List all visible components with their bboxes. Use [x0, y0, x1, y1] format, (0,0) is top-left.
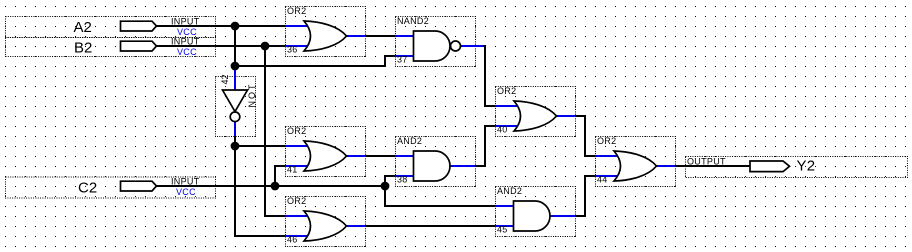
- OR2 gate U44 selection box: [596, 137, 676, 187]
- OR2 U40 output pin stub: [556, 115, 575, 117]
- label VCC on A2: [177, 27, 197, 37]
- label OR2 (40): [497, 86, 516, 96]
- label VCC on B2: [177, 47, 197, 57]
- svg-text:38: 38: [397, 175, 408, 185]
- input port C2 selection box: [6, 177, 216, 198]
- OR2 gate U36 selection box: [286, 7, 366, 57]
- wire from port A2 to node A: [152, 25, 287, 27]
- OR2 U40 body: [514, 101, 557, 131]
- designator 38: [397, 175, 408, 185]
- wire AND2-38 output to OR2-40 lower input: [474, 126, 495, 166]
- port name A2: [74, 19, 92, 36]
- svg-text:INPUT: INPUT: [171, 16, 200, 26]
- label INPUT on C2: [171, 176, 200, 186]
- label INPUT on B2: [171, 36, 200, 46]
- junction NOT output node: [231, 142, 240, 151]
- AND2 U45 input pin stubs: [495, 206, 515, 226]
- NAND2 U37 body: [414, 31, 451, 61]
- OR2 U44 output pin stub: [656, 165, 675, 167]
- svg-text:A2: A2: [74, 19, 92, 36]
- wire node C down to AND2-45 upper input: [385, 186, 495, 206]
- NOT U42 triangle body: [223, 90, 248, 112]
- wire AND2-45 output to OR2-44 lower input: [574, 176, 595, 216]
- label VCC on C2: [176, 187, 196, 197]
- AND2 U38 body: [414, 151, 451, 181]
- OR2 U36 body: [304, 21, 347, 51]
- OR2 U41 input pin stubs: [285, 146, 309, 166]
- junction node A to NAND2 branch: [231, 62, 240, 71]
- input port C2 pentagon symbol: [121, 181, 157, 191]
- svg-text:42: 42: [220, 74, 230, 84]
- wire NAND2 output to OR2-40 upper input: [482, 46, 495, 106]
- label AND2 (45): [497, 186, 522, 196]
- svg-text:INPUT: INPUT: [171, 36, 200, 46]
- svg-text:44: 44: [597, 175, 608, 185]
- svg-text:41: 41: [287, 165, 298, 175]
- svg-text:OR2: OR2: [597, 136, 616, 146]
- svg-text:AND2: AND2: [497, 186, 522, 196]
- OR2 U41 body: [304, 141, 347, 171]
- port name C2: [78, 180, 97, 197]
- AND2 U45 body: [514, 201, 551, 231]
- svg-text:46: 46: [287, 235, 298, 245]
- svg-text:NOT: NOT: [247, 83, 257, 108]
- svg-text:40: 40: [497, 125, 508, 135]
- wire node A to NAND2 lower input: [235, 56, 395, 66]
- NOT U42 inversion bubble: [230, 112, 240, 122]
- input port B2 selection box: [6, 38, 216, 57]
- OR2 U40 input pin stubs: [495, 106, 519, 126]
- wire from port B2 to node B: [152, 45, 287, 47]
- output port Y2 selection box: [686, 157, 908, 178]
- wire OR2-46 output to AND2-45 lower input: [364, 225, 495, 227]
- output port Y2 pentagon symbol: [750, 161, 790, 172]
- junction node C to OR2-41 branch: [271, 182, 280, 191]
- NAND2 U37 inversion bubble: [451, 41, 461, 51]
- svg-text:VCC: VCC: [177, 47, 197, 57]
- port name B2: [74, 39, 92, 56]
- label AND2 (38): [397, 136, 422, 146]
- AND2 gate U45 selection box: [496, 187, 576, 237]
- svg-text:INPUT: INPUT: [171, 176, 200, 186]
- svg-text:OR2: OR2: [287, 196, 306, 206]
- OR2 gate U41 selection box: [286, 127, 366, 177]
- wire OR2-36 output to NAND2 upper input: [364, 35, 396, 37]
- designator 37: [397, 55, 408, 65]
- svg-text:36: 36: [287, 45, 298, 55]
- designator 41: [287, 165, 298, 175]
- NOT U42 output pin stub: [234, 121, 236, 136]
- NAND2 gate U37 selection box: [396, 17, 476, 67]
- designator 40: [497, 125, 508, 135]
- svg-text:OUTPUT: OUTPUT: [687, 157, 726, 167]
- input port A2 pentagon symbol: [121, 21, 157, 31]
- svg-text:45: 45: [497, 225, 508, 235]
- OR2 U36 input pin stubs: [285, 26, 309, 46]
- svg-text:OR2: OR2: [287, 126, 306, 136]
- NOT U42 input pin stub: [234, 66, 236, 90]
- svg-text:37: 37: [397, 55, 408, 65]
- label OR2 (46): [287, 196, 306, 206]
- designator 36: [287, 45, 298, 55]
- designator 44: [597, 175, 608, 185]
- svg-text:B2: B2: [74, 39, 92, 56]
- NOT gate U42 selection box: [216, 77, 256, 137]
- AND2 gate U38 selection box: [396, 137, 476, 187]
- svg-text:Y2: Y2: [797, 158, 816, 175]
- OR2 U36 output pin stub: [346, 35, 365, 37]
- junction node C to AND2 branches: [381, 182, 390, 191]
- label NOT (rotated): [247, 83, 257, 108]
- label OUTPUT on Y2: [687, 157, 726, 167]
- svg-text:OR2: OR2: [287, 6, 306, 16]
- AND2 U45 output pin stub: [550, 215, 575, 217]
- label OR2 (41): [287, 126, 306, 136]
- OR2 U46 input pin stubs: [285, 216, 309, 236]
- wire OR2-44 output to port Y2: [674, 165, 751, 167]
- wire node C up to AND2-38 lower input: [385, 176, 395, 186]
- junction node A on A2 wire: [231, 22, 240, 31]
- AND2 U38 output pin stub: [450, 165, 475, 167]
- OR2 U41 output pin stub: [346, 155, 365, 157]
- input port A2 selection box: [6, 17, 216, 38]
- OR2 U44 body: [614, 151, 657, 181]
- OR2 U46 body: [304, 211, 347, 241]
- wire NOT output to OR2-41 upper input: [235, 145, 287, 147]
- OR2 gate U40 selection box: [496, 87, 576, 137]
- designator 45: [497, 225, 508, 235]
- designator 46: [287, 235, 298, 245]
- NAND2 U37 input pin stubs: [395, 36, 415, 56]
- NAND2 U37 output pin stub: [461, 45, 484, 47]
- OR2 U46 output pin stub: [346, 225, 365, 227]
- svg-text:VCC: VCC: [177, 27, 197, 37]
- port name Y2: [797, 158, 816, 175]
- AND2 U38 input pin stubs: [395, 156, 415, 176]
- wire OR2-40 output to OR2-44 upper input: [574, 116, 595, 156]
- svg-text:OR2: OR2: [497, 86, 516, 96]
- wire node A vertical to NOT input: [234, 26, 236, 68]
- wire NOT output down to OR2-46 lower input: [235, 134, 287, 236]
- OR2 gate U46 selection box: [286, 197, 366, 247]
- wire node B vertical to OR2-46 upper input: [265, 46, 287, 216]
- wire node C up to OR2-41 lower input: [275, 166, 287, 186]
- designator 42 (rotated): [220, 74, 230, 84]
- wire from port C2 to node C: [152, 185, 385, 187]
- svg-text:NAND2: NAND2: [397, 16, 429, 26]
- label NAND2 (37): [397, 16, 429, 26]
- label OR2 (44): [597, 136, 616, 146]
- OR2 U44 input pin stubs: [595, 156, 619, 176]
- wire OR2-41 output to AND2-38 upper input: [364, 155, 396, 157]
- label INPUT on A2: [171, 16, 200, 26]
- svg-text:VCC: VCC: [176, 187, 196, 197]
- svg-text:AND2: AND2: [397, 136, 422, 146]
- svg-text:C2: C2: [78, 180, 97, 197]
- junction node B on B2 wire: [261, 42, 270, 51]
- label OR2 (36): [287, 6, 306, 16]
- input port B2 pentagon symbol: [121, 41, 157, 51]
